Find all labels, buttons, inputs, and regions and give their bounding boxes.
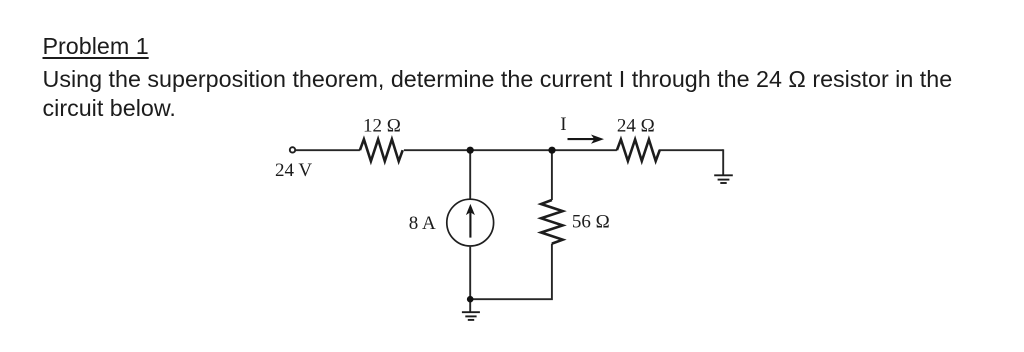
- svg-text:24 Ω: 24 Ω: [617, 116, 655, 137]
- svg-text:I: I: [560, 114, 566, 135]
- svg-text:24 V: 24 V: [275, 160, 312, 181]
- svg-text:12 Ω: 12 Ω: [363, 116, 401, 137]
- svg-text:8 A: 8 A: [409, 213, 436, 234]
- svg-text:56 Ω: 56 Ω: [572, 212, 610, 233]
